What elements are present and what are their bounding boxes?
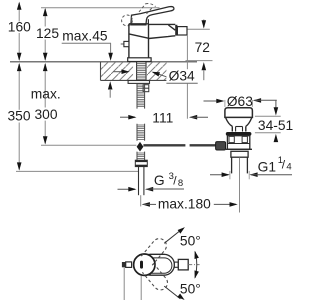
svg-text:4: 4 bbox=[286, 162, 291, 173]
dimension max.300 vertical line bbox=[44, 64, 46, 143]
svg-text:Ø34: Ø34 bbox=[169, 69, 195, 84]
lever cartridge edge bbox=[147, 19, 149, 24]
svg-text:160: 160 bbox=[8, 19, 31, 34]
ball joint bbox=[137, 142, 144, 152]
top view: centerline dash-dot bbox=[188, 264, 199, 266]
svg-text:/: / bbox=[173, 174, 177, 188]
faucet spout bbox=[149, 24, 177, 38]
extension line spout tip / 111 bbox=[186, 35, 188, 69]
G3/8 connection nut bbox=[135, 160, 147, 166]
countertop cross-section bbox=[101, 62, 167, 81]
pop-up waste flange bbox=[225, 108, 253, 118]
drain pipe bbox=[231, 157, 233, 173]
svg-text:max.45: max.45 bbox=[62, 28, 108, 43]
top view: lever rotated -50 dashed bbox=[142, 263, 170, 293]
dimension 350 vertical line bbox=[18, 64, 20, 170]
svg-text:max.180: max.180 bbox=[158, 197, 211, 212]
top view: lever end block bbox=[178, 259, 188, 270]
svg-text:max.: max. bbox=[31, 86, 61, 101]
faucet body bbox=[129, 24, 149, 58]
svg-text:Ø63: Ø63 bbox=[227, 94, 253, 109]
top view: lever end stub bbox=[174, 262, 178, 267]
extension line 300 bottom bbox=[41, 144, 136, 146]
extension line lever top bbox=[41, 7, 160, 9]
dimension 160 vertical line bbox=[18, 3, 20, 60]
pop-up waste knurled nut bbox=[216, 142, 226, 150]
Ø34 leader arrow right bbox=[154, 72, 167, 76]
svg-text:34-51: 34-51 bbox=[258, 118, 293, 133]
svg-text:/: / bbox=[282, 158, 286, 172]
lever raised position dashed bbox=[122, 4, 156, 26]
top view: spout stub bbox=[122, 262, 126, 267]
pop-up horizontal rod bbox=[143, 144, 185, 146]
pop-up waste seal ring bbox=[226, 132, 252, 136]
extension line 350 bottom bbox=[16, 170, 138, 172]
svg-text:125: 125 bbox=[36, 26, 59, 41]
svg-text:G: G bbox=[154, 173, 165, 188]
dimension max.180 bbox=[142, 197, 238, 212]
rod guide bracket bbox=[143, 85, 149, 92]
svg-text:G1: G1 bbox=[258, 159, 276, 174]
top view: swing arc bbox=[195, 252, 197, 278]
drain pipe centerline bbox=[239, 158, 241, 213]
dimension 111 bbox=[120, 110, 208, 125]
svg-text:50°: 50° bbox=[180, 233, 201, 248]
countertop surface line bbox=[10, 61, 197, 63]
pop-up waste lower body bbox=[231, 151, 248, 157]
dimension 34-51 bbox=[255, 100, 293, 142]
svg-text:350: 350 bbox=[8, 109, 31, 124]
threaded supply pipe lower bbox=[137, 124, 145, 141]
mounting washer under counter bbox=[128, 81, 149, 84]
dimension 125 arrowheads bbox=[43, 8, 48, 16]
label Ø34 box bbox=[166, 69, 197, 83]
top view: body circle bbox=[134, 254, 155, 275]
top view: lower rotation leader arrow bbox=[164, 286, 180, 299]
top view: lever capsule outer bbox=[140, 254, 174, 275]
threaded pipe below ball bbox=[137, 152, 145, 161]
dimension 125 vertical line bbox=[44, 9, 46, 60]
pop-up waste taper bbox=[226, 118, 252, 132]
dimension G3/8 bbox=[118, 171, 185, 192]
dimension Ø63 bbox=[204, 94, 277, 109]
threaded supply pipe upper bbox=[137, 83, 145, 108]
faucet base plate bbox=[128, 58, 151, 62]
threaded shank through counter bbox=[137, 62, 146, 80]
supply pipe end bbox=[138, 167, 140, 196]
faucet lever handle bbox=[131, 7, 174, 25]
svg-text:8: 8 bbox=[178, 178, 183, 189]
dimension 350 arrowheads bbox=[17, 63, 22, 71]
dimension max.300 arrowheads bbox=[43, 63, 48, 71]
top view: lever capsule inner bbox=[141, 258, 172, 273]
top view: upper rotation leader arrow bbox=[164, 231, 180, 243]
dimension 72 bbox=[187, 20, 210, 81]
spout aerator block bbox=[177, 27, 187, 35]
svg-text:50°: 50° bbox=[180, 282, 201, 297]
svg-text:72: 72 bbox=[195, 40, 210, 55]
top view: pivot slot bbox=[140, 261, 143, 269]
pop-up waste clamp body bbox=[227, 136, 249, 150]
extension line 72 bottom bbox=[186, 60, 213, 62]
dimension max.45 leader bbox=[62, 28, 113, 97]
svg-text:300: 300 bbox=[35, 107, 58, 122]
top view: extension drop lines bbox=[123, 268, 125, 300]
dimension 160 arrowheads bbox=[17, 2, 22, 10]
Ø34 arrow left bbox=[113, 71, 128, 73]
svg-text:111: 111 bbox=[152, 110, 173, 125]
dimension G1 1/4 bbox=[210, 155, 292, 179]
pop-up rod tab on body bbox=[121, 43, 124, 45]
top view: lever rotated +50 dashed bbox=[141, 236, 169, 266]
